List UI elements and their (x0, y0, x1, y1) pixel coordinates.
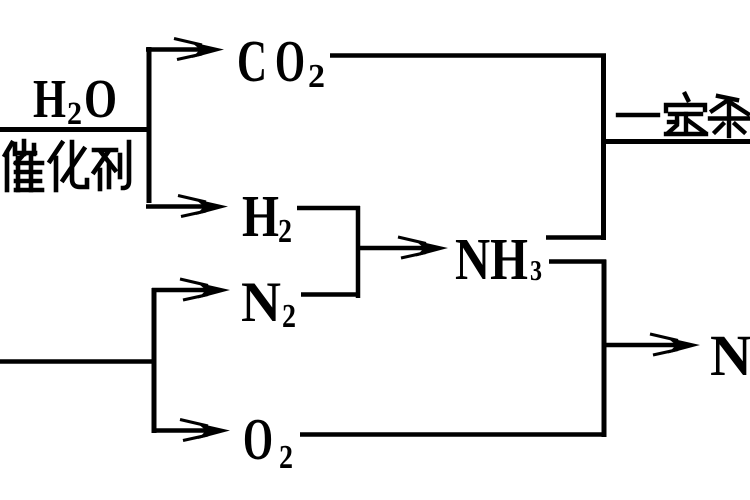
svg-text:N: N (241, 271, 281, 334)
arrow: to CO2 (146, 39, 224, 60)
svg-text:C: C (237, 28, 267, 94)
wire: left input line from edge (0, 359, 156, 364)
wire: right trunk lower vertical (602, 260, 607, 438)
text O2 (243, 406, 293, 476)
wire: upper-left vertical trunk (147, 47, 152, 203)
svg-text:3: 3 (530, 256, 542, 287)
arrow: to N (bottom right product) (605, 334, 700, 355)
wire: CO2 to right trunk (330, 53, 606, 58)
arrow: to H2 (146, 196, 228, 217)
text CO2 (237, 28, 325, 95)
arrow: to N2 (152, 279, 230, 300)
wire: NH3 upper stub to right trunk (546, 235, 606, 240)
wire: NH3 lower stub to right trunk (549, 259, 606, 264)
text 一定条 (condition label, hand-drawn strokes) (618, 94, 750, 136)
svg-text:2: 2 (279, 439, 293, 476)
wire: H2 to bracket (297, 206, 360, 211)
svg-text:2: 2 (282, 298, 296, 335)
wire: bracket vertical joining H2 and N2 (356, 206, 361, 298)
svg-text:2: 2 (308, 58, 325, 95)
svg-text:N: N (710, 323, 750, 388)
wire: O2 to right trunk bottom (300, 432, 606, 437)
wire: line under 一定条件 (604, 139, 750, 144)
arrow: bracket to NH3 (360, 237, 448, 258)
text NH3 (455, 226, 542, 292)
svg-text:H: H (33, 68, 66, 129)
wire: lower-left vertical trunk (152, 288, 157, 433)
svg-text:2: 2 (67, 96, 82, 132)
svg-text:H: H (242, 183, 279, 249)
wire: right trunk upper vertical (601, 54, 606, 241)
svg-text:O: O (275, 28, 305, 94)
arrow: to O2 (153, 420, 230, 441)
svg-text:2: 2 (278, 213, 292, 250)
svg-text:O: O (84, 68, 117, 129)
text H2 (242, 183, 292, 250)
text H2O (33, 68, 117, 132)
text 催化剂 (catalyst, hand-drawn strokes) (5, 141, 129, 190)
svg-text:O: O (243, 406, 273, 472)
wire: line under H2O (left box top) (0, 127, 151, 132)
text N2 (241, 271, 296, 335)
wire: N2 to bracket (301, 292, 360, 297)
svg-text:NH: NH (455, 226, 528, 292)
